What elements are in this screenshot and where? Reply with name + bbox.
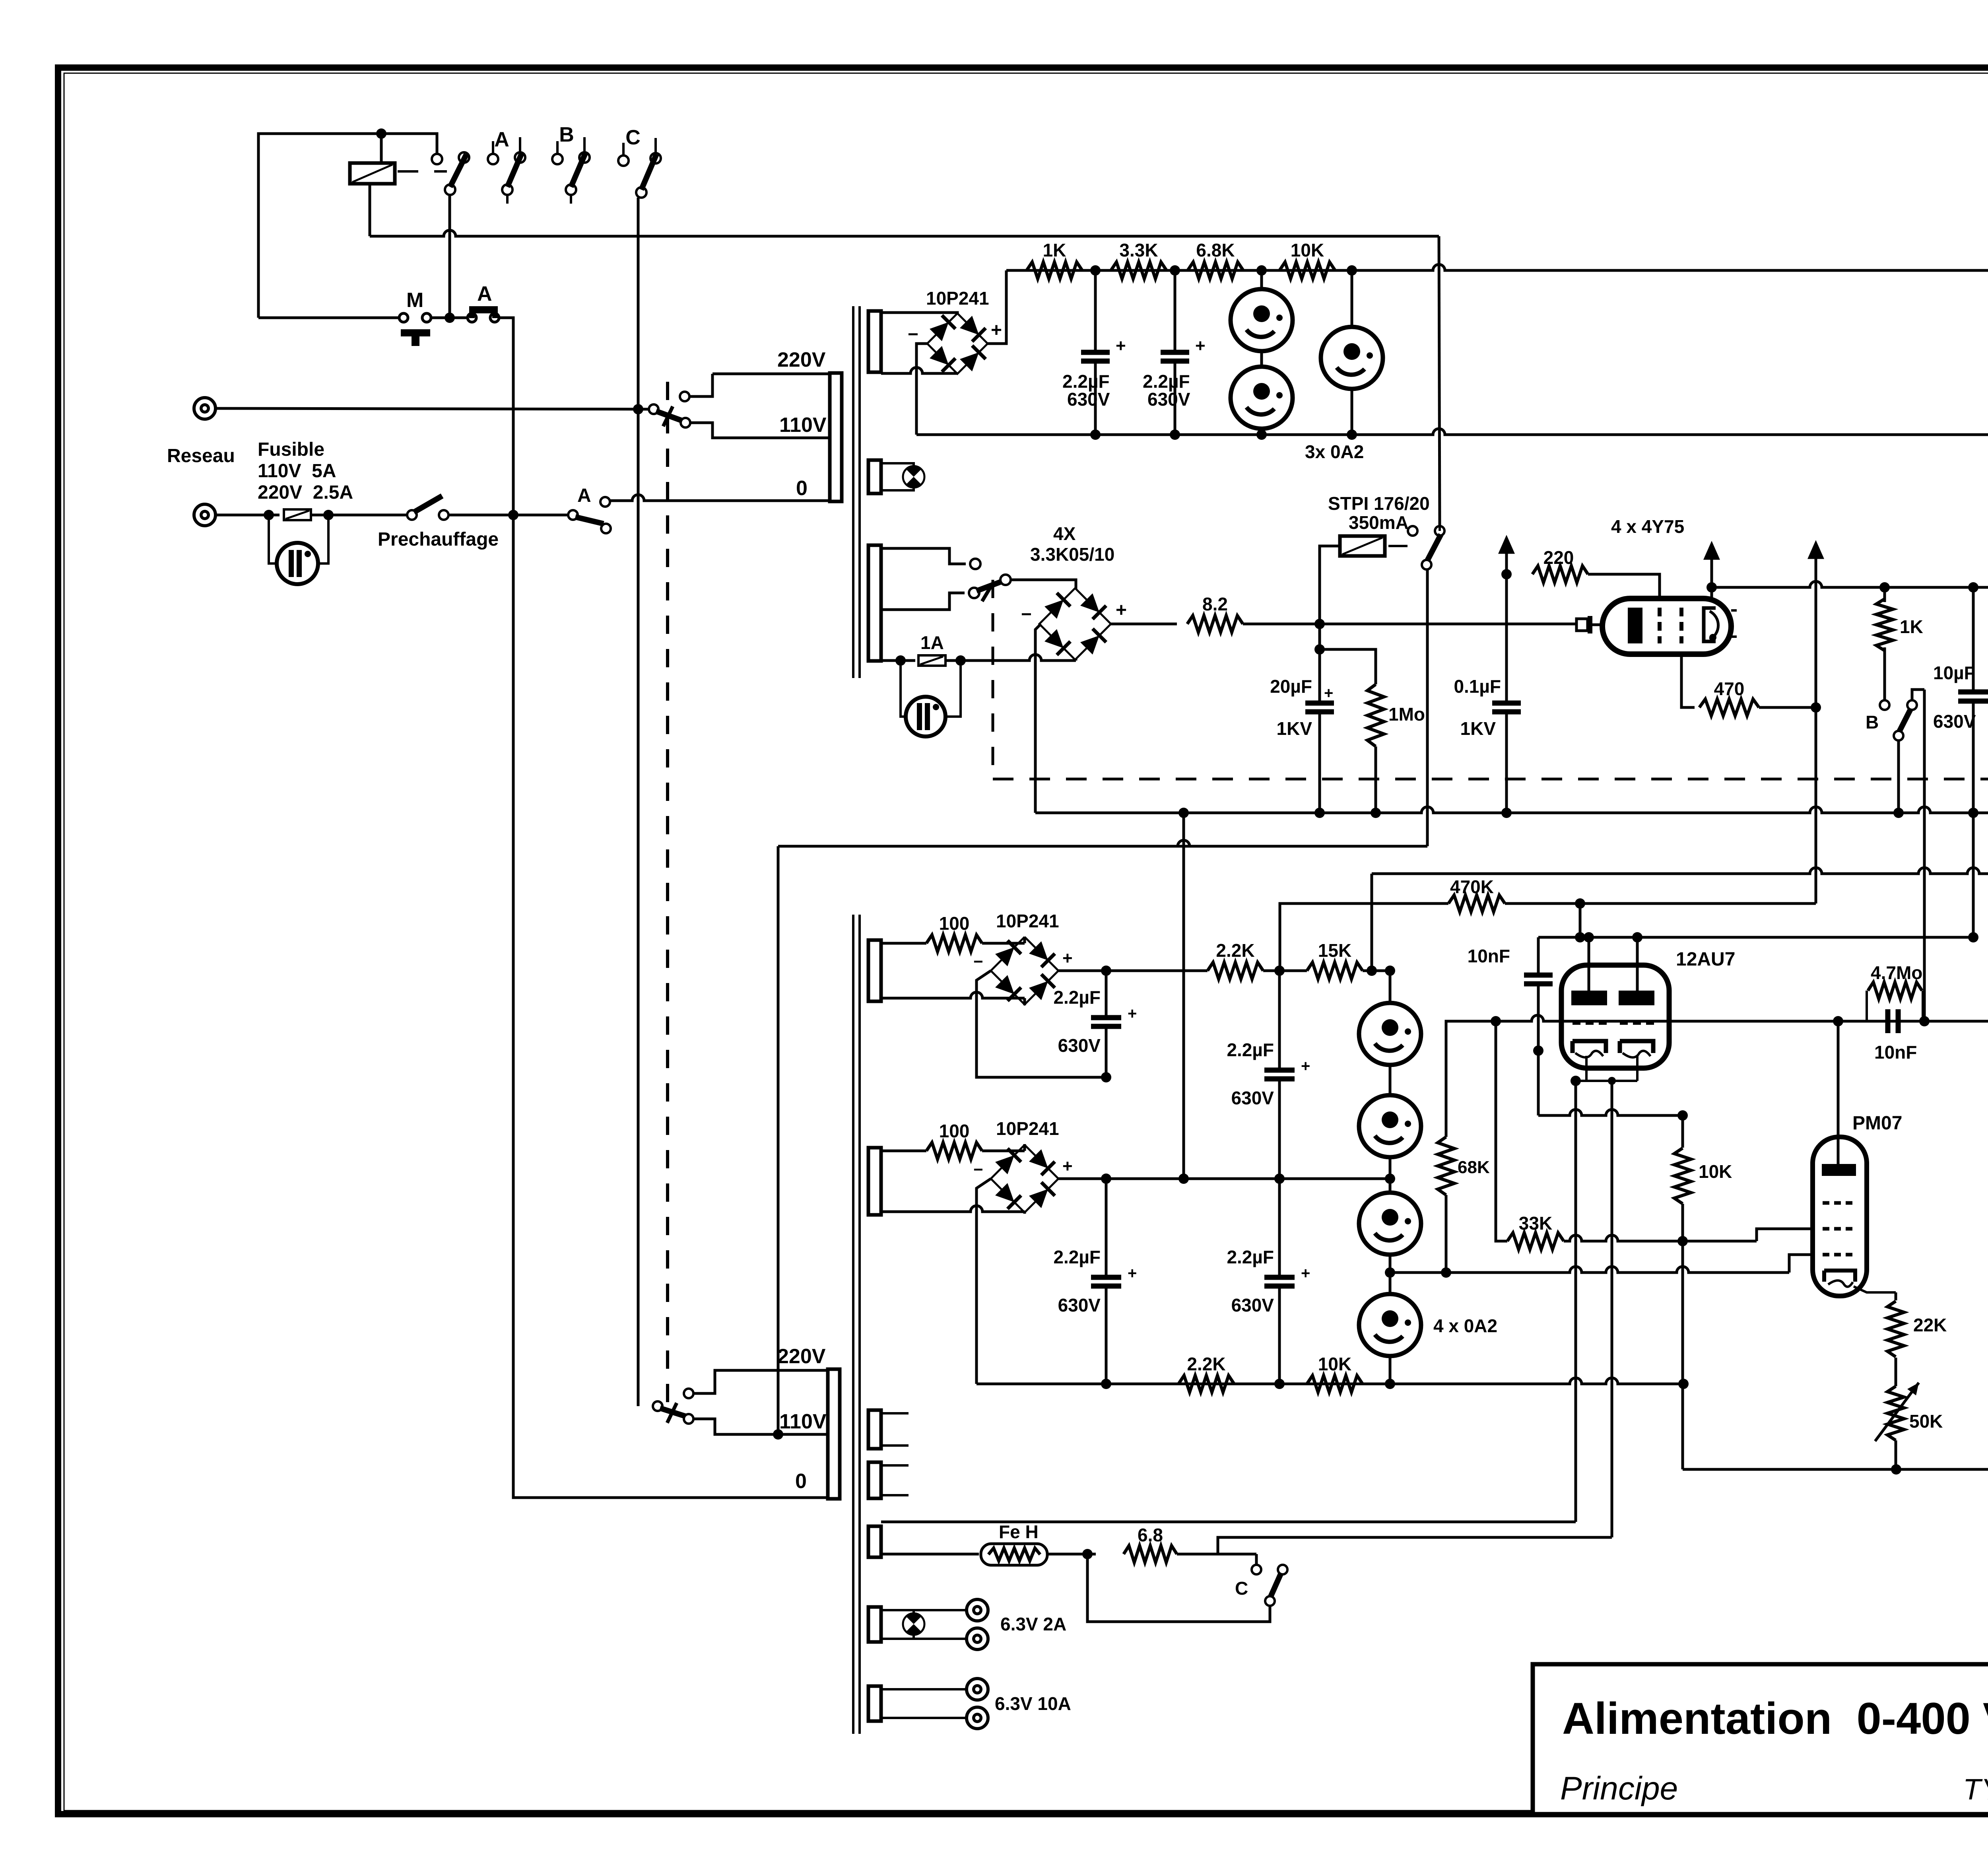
wire coil bottom to STPI feed line bbox=[369, 184, 371, 236]
svg-text:6.3V 2A: 6.3V 2A bbox=[1000, 1614, 1066, 1634]
svg-text:+: + bbox=[1116, 600, 1127, 621]
wire 6.3V2A bottom bbox=[881, 1638, 967, 1640]
dashed mechanical link relay to contact bbox=[398, 170, 447, 173]
wire 6.3V10A top bbox=[881, 1688, 967, 1690]
svg-text:0: 0 bbox=[795, 1470, 807, 1493]
node between 2.2K 15K bbox=[1274, 966, 1285, 976]
pilot lamp bbox=[903, 466, 924, 488]
wire winding W1 bottom to bridge3 bbox=[881, 992, 1025, 998]
wire 150V - rail bbox=[916, 429, 1988, 435]
regulator tube 0A2 #3 bbox=[1351, 270, 1353, 435]
wire 220V tap to primary bbox=[712, 373, 830, 375]
bridge rectifier 4X 3.3K05/10 bbox=[1039, 588, 1111, 660]
wire 10uF line to anode supply lower bbox=[1972, 813, 1975, 937]
capacitor 2.2uF #1 lower bbox=[1105, 971, 1108, 1018]
bridge rectifier 10P241 #1 bbox=[927, 313, 988, 374]
svg-text:6.8: 6.8 bbox=[1138, 1525, 1163, 1545]
wire 68K top riser bbox=[1446, 1021, 1496, 1137]
svg-text:+: + bbox=[1301, 1265, 1310, 1282]
svg-text:630V: 630V bbox=[1231, 1088, 1274, 1108]
switch HV tap select bbox=[977, 581, 1002, 591]
resistor 100 #1 bbox=[881, 942, 926, 945]
node after 6.8K bbox=[1256, 265, 1267, 276]
dashed link STPI bbox=[1388, 545, 1408, 547]
svg-text:220V: 220V bbox=[777, 1345, 826, 1368]
svg-text:22K: 22K bbox=[1913, 1315, 1947, 1335]
wire winding W2 bottom to bridge4 bbox=[881, 1206, 1025, 1212]
tube 12AU7 grids dashed bbox=[1573, 1021, 1607, 1025]
wire 15K to 0A2 string bbox=[1363, 970, 1390, 972]
svg-text:630V: 630V bbox=[1058, 1295, 1101, 1315]
regulator tube 0A2 #2 bbox=[1231, 367, 1293, 429]
svg-text:TYPE :: TYPE : bbox=[1963, 1773, 1988, 1806]
svg-text:2.2µF: 2.2µF bbox=[1053, 987, 1101, 1008]
arrow anode feed 1 bbox=[1498, 535, 1515, 554]
wire B common to minus rail bbox=[1897, 740, 1900, 813]
svg-text:10P241: 10P241 bbox=[996, 1118, 1059, 1139]
wire line3 0A2 to PM07 grid3 bbox=[1385, 1267, 1395, 1278]
svg-text:100: 100 bbox=[939, 913, 970, 934]
wire T2 110V tap feed down bbox=[777, 846, 780, 1434]
resistor 6.8 bbox=[1124, 1546, 1177, 1562]
capacitor 2.2uF #4 low mid bbox=[1278, 1179, 1281, 1277]
tube 4Y75 grid 1 dashed bbox=[1658, 608, 1662, 643]
transformer T2 winding Fe H bbox=[868, 1526, 881, 1557]
node 10uF top bbox=[1968, 582, 1978, 593]
node cap1 top bbox=[1101, 966, 1111, 976]
svg-text:50K: 50K bbox=[1909, 1411, 1943, 1432]
wire 1A to bridge2 AC bottom bbox=[945, 659, 961, 662]
wire bridge4 - loop down bbox=[977, 1179, 991, 1384]
wire 6.3V2A top bbox=[881, 1609, 967, 1611]
tube PM07#1 grids bbox=[1823, 1201, 1857, 1205]
push button M bbox=[399, 313, 408, 322]
tube 4Y75 bottom pin to 470 bbox=[1681, 654, 1695, 707]
wire 0-400V + rail bbox=[1712, 581, 1988, 587]
regulator string 4x 0A2 bbox=[1389, 971, 1392, 1384]
wire STPI coil feed bbox=[1320, 546, 1340, 624]
capacitor 2.2uF 630V #B bbox=[1170, 429, 1180, 440]
svg-text:2.2µF: 2.2µF bbox=[1053, 1247, 1101, 1267]
svg-text:1K: 1K bbox=[1043, 240, 1066, 260]
svg-text:+: + bbox=[1062, 948, 1073, 968]
node 1Mo tap bbox=[1314, 644, 1325, 655]
node 0A2 string top bbox=[1385, 966, 1395, 976]
svg-text:10K: 10K bbox=[1699, 1161, 1732, 1182]
wire 1Mo bottom bbox=[1375, 746, 1377, 813]
svg-text:3.3K: 3.3K bbox=[1119, 240, 1158, 260]
capacitor 0.1uF 1KV bbox=[1505, 574, 1508, 703]
wire PM07#1 cathode to 22K bbox=[1854, 1286, 1896, 1292]
svg-text:630V: 630V bbox=[1067, 389, 1110, 410]
resistor 8.2 bbox=[1187, 616, 1243, 632]
wire bridge4 + output row bbox=[1058, 1177, 1390, 1180]
wire bridge3 + output row bbox=[1058, 970, 1208, 972]
svg-text:Fe H: Fe H bbox=[999, 1521, 1039, 1542]
tube 12AU7 envelope bbox=[1561, 965, 1669, 1068]
wire 220 to tube grid bbox=[1588, 574, 1660, 604]
node 8.2 output bbox=[1314, 619, 1325, 629]
node feedback 470 bbox=[1811, 702, 1821, 713]
svg-text:630V: 630V bbox=[1058, 1035, 1101, 1056]
tube PM07#1 anode pin bbox=[1837, 1021, 1840, 1164]
transformer T2 winding 6.3V 2A bbox=[868, 1607, 881, 1642]
resistor 10K mid bbox=[1681, 1115, 1684, 1148]
pot 50K bbox=[1887, 1386, 1904, 1440]
node 220 resistor left bbox=[1501, 569, 1512, 579]
resistor 470K bbox=[1448, 895, 1505, 912]
svg-text:+: + bbox=[1195, 336, 1206, 356]
svg-text:+: + bbox=[1062, 1156, 1073, 1176]
node 1A right bbox=[955, 655, 966, 666]
svg-text:B: B bbox=[1866, 712, 1879, 732]
resistor 4.7Mo loop bbox=[1866, 991, 1868, 1021]
svg-text:M: M bbox=[406, 289, 423, 312]
node mains junction bbox=[508, 510, 518, 520]
transformer T2 stub winding 2 bbox=[868, 1462, 881, 1498]
wire Fe H bottom line bbox=[881, 1553, 979, 1556]
resistor 2.2K upper bbox=[1208, 962, 1263, 979]
node after 1K bbox=[1090, 265, 1101, 276]
svg-text:1KV: 1KV bbox=[1277, 718, 1312, 739]
wire 0-400V minus rail bbox=[1035, 807, 1988, 813]
fuse F1 bbox=[284, 509, 311, 520]
ballast Fe H bbox=[981, 1544, 1047, 1565]
wire 220V tap select bbox=[689, 374, 712, 396]
transformer T1 secondary 150V bbox=[868, 311, 881, 372]
svg-text:−: − bbox=[973, 1160, 983, 1179]
svg-text:−: − bbox=[1021, 604, 1032, 624]
svg-text:+: + bbox=[1324, 684, 1333, 702]
svg-text:470K: 470K bbox=[1450, 876, 1494, 897]
transformer T2 stub winding 1 bbox=[868, 1410, 881, 1449]
tube PM07#1 anode bbox=[1822, 1164, 1856, 1176]
svg-text:−: − bbox=[908, 324, 918, 344]
tube 4Y75 anode pin bbox=[1710, 587, 1713, 598]
svg-text:+: + bbox=[1128, 1005, 1137, 1022]
node T2 110V feed bbox=[773, 1429, 783, 1440]
svg-text:8.2: 8.2 bbox=[1202, 594, 1228, 614]
svg-text:4 x 0A2: 4 x 0A2 bbox=[1433, 1315, 1497, 1336]
transformer T2 secondary W2 bbox=[868, 1148, 881, 1215]
wire heater riser 1 bbox=[1574, 1081, 1577, 1522]
resistor 15K upper bbox=[1307, 962, 1363, 979]
svg-text:1Mo: 1Mo bbox=[1388, 704, 1425, 725]
resistor 33K bbox=[1507, 1233, 1564, 1249]
wire long line to STPI switch bbox=[370, 230, 1439, 236]
arrow feedback vertical bbox=[1807, 540, 1824, 559]
transformer T1 primary winding bbox=[830, 373, 842, 501]
dashed mechanical rail bbox=[993, 778, 1988, 781]
svg-text:0: 0 bbox=[796, 477, 808, 500]
node riser sense bbox=[1367, 966, 1377, 976]
wire selected tap to bridge2 bbox=[1011, 580, 1076, 589]
svg-text:630V: 630V bbox=[1231, 1295, 1274, 1315]
wire 470K feedback line bbox=[1280, 903, 1448, 969]
wire hot vertical to T2 selector bbox=[637, 414, 640, 1406]
svg-text:1KV: 1KV bbox=[1460, 718, 1496, 739]
tube PM07#1 cathode bbox=[1824, 1271, 1855, 1282]
resistor 470 bbox=[1699, 699, 1759, 716]
wire y2128 line hop bbox=[778, 840, 1427, 846]
node after 3.3K bbox=[1170, 265, 1180, 276]
wire pilot winding to lamp bbox=[881, 463, 914, 467]
svg-text:220V: 220V bbox=[777, 348, 826, 371]
resistor 10K (150V chain) bbox=[1279, 262, 1335, 279]
tube 12AU7 anode pins bbox=[1588, 937, 1590, 991]
svg-text:2.2µF: 2.2µF bbox=[1227, 1247, 1274, 1267]
svg-text:6.8K: 6.8K bbox=[1196, 240, 1235, 260]
wire mains feed to STPI contact bbox=[1439, 236, 1440, 526]
wire heater link up bbox=[1255, 1554, 1258, 1565]
svg-text:Prechauffage: Prechauffage bbox=[378, 529, 499, 550]
resistor 2.2K lower bbox=[1178, 1376, 1234, 1392]
svg-text:Principe: Principe bbox=[1560, 1770, 1678, 1807]
wire secondary to bridge AC bottom bbox=[881, 367, 957, 373]
svg-text:+: + bbox=[1116, 336, 1126, 356]
svg-text:−: − bbox=[973, 952, 983, 971]
wire T2 220V tap bbox=[693, 1370, 828, 1393]
transformer T2 secondary W1 bbox=[868, 940, 881, 1001]
switch B contacts bbox=[1880, 700, 1889, 710]
node anode pins bbox=[1584, 932, 1594, 942]
terminal 6.3V10A b bbox=[967, 1707, 988, 1729]
wire bridge1 - down to 150V - rail bbox=[916, 344, 927, 435]
switch Prechauffage bbox=[407, 510, 417, 520]
wire 6.8 to heater riser link bbox=[1177, 1553, 1256, 1556]
node fuse right bbox=[323, 510, 334, 520]
svg-text:100: 100 bbox=[939, 1121, 970, 1141]
wire C pivot down to mains node bbox=[637, 198, 640, 410]
wire B right contact to lower feedback bbox=[1912, 690, 1924, 700]
wire upper mains line bbox=[215, 408, 649, 409]
svg-text:C: C bbox=[625, 126, 641, 149]
node after 10K bbox=[1347, 265, 1357, 276]
resistor 100 #2 bbox=[881, 1150, 926, 1152]
svg-text:12AU7: 12AU7 bbox=[1676, 949, 1735, 970]
resistor 22K bbox=[1895, 1292, 1897, 1300]
wire STPI common down to T2 110V tap bbox=[1426, 569, 1429, 846]
capacitor 2.2uF #3 low left bbox=[1105, 1179, 1108, 1277]
transformer T2 core bbox=[852, 915, 854, 1734]
wire coil top pin bbox=[380, 134, 383, 163]
tube 4x4Y75 envelope bbox=[1602, 598, 1731, 654]
dashed gang link 4X selector bbox=[992, 580, 994, 779]
svg-text:110V 5A: 110V 5A bbox=[258, 460, 336, 482]
capacitor 2.2uF 630V #A bbox=[1090, 429, 1101, 440]
terminal 6.3V10A a bbox=[967, 1679, 988, 1700]
resistor 220 bbox=[1532, 566, 1588, 583]
fuse 1A bbox=[918, 655, 945, 666]
wire to 1Mo bbox=[1320, 649, 1376, 684]
resistor 6.8K bbox=[1188, 262, 1243, 279]
resistor 3.3K bbox=[1111, 262, 1167, 279]
switch A (gang) contacts bbox=[492, 141, 494, 154]
svg-text:Fusible: Fusible bbox=[258, 439, 324, 460]
svg-text:Alimentation 0-400 V 500 mA: Alimentation 0-400 V 500 mA bbox=[1562, 1694, 1988, 1743]
capacitor 20uF 1KV bbox=[1318, 624, 1321, 703]
tube PM07 #1 envelope bbox=[1813, 1137, 1867, 1296]
svg-text:10P241: 10P241 bbox=[996, 911, 1059, 931]
wire relay-supply loop top bbox=[258, 134, 437, 318]
svg-text:10nF: 10nF bbox=[1874, 1042, 1917, 1063]
switch A mains bbox=[568, 510, 578, 520]
svg-text:220V 2.5A: 220V 2.5A bbox=[258, 482, 353, 503]
node button line bbox=[445, 313, 455, 323]
svg-text:+: + bbox=[1301, 1057, 1310, 1075]
node 1K top bbox=[1879, 582, 1890, 593]
switch C (gang) contacts bbox=[622, 143, 625, 155]
svg-text:3x 0A2: 3x 0A2 bbox=[1305, 441, 1364, 462]
wire 6.3V10A bottom bbox=[881, 1717, 967, 1719]
switch B (gang) contacts bbox=[556, 141, 559, 154]
wire bridge2 - to 0-400V minus rail bbox=[1035, 624, 1041, 813]
arrow anode feed 2 bbox=[1703, 541, 1720, 560]
tube 4Y75 cathode connector bbox=[1575, 624, 1578, 626]
svg-text:2.2µF: 2.2µF bbox=[1227, 1039, 1274, 1060]
svg-text:3.3K05/10: 3.3K05/10 bbox=[1030, 544, 1114, 565]
wire T2 110V tap bbox=[693, 1419, 828, 1434]
wire heater riser 2 bbox=[1611, 1081, 1613, 1537]
terminal 6.3V2A b bbox=[967, 1628, 988, 1650]
svg-text:4X: 4X bbox=[1053, 523, 1076, 544]
svg-text:10P241: 10P241 bbox=[926, 288, 989, 309]
node 470K output bbox=[1575, 898, 1585, 909]
wire relay contact to button line bbox=[448, 195, 451, 318]
svg-text:10K: 10K bbox=[1318, 1354, 1351, 1374]
wire sense line 2197 bbox=[1371, 874, 1373, 969]
svg-text:1A: 1A bbox=[920, 632, 944, 653]
terminal 6.3V2A a bbox=[967, 1599, 988, 1621]
wire A button to mains junction bbox=[499, 318, 513, 515]
wire x2977 from minus rail to row2 bbox=[1182, 813, 1185, 1179]
lamp 6.3V bbox=[912, 1610, 915, 1613]
svg-text:110V: 110V bbox=[779, 414, 827, 437]
dashed gang link vertical bbox=[666, 382, 669, 1416]
relay contact switch bbox=[432, 154, 442, 164]
wire cathode bias line bbox=[1538, 1109, 1683, 1115]
wire 33K to PM07#1 grid2 bbox=[1564, 1235, 1757, 1241]
switch STPI contact bbox=[1408, 526, 1417, 536]
wire T2 0 tap bbox=[513, 515, 828, 1498]
wire bottom row supply bbox=[977, 1378, 1683, 1384]
terminal Reseau upper bbox=[194, 398, 215, 419]
svg-text:2.2K: 2.2K bbox=[1216, 940, 1254, 961]
wire bridge2 + through 8.2 bbox=[1111, 623, 1177, 626]
transformer T1 core bbox=[852, 306, 854, 678]
node minus rail junctions bbox=[1314, 808, 1325, 818]
svg-text:10K: 10K bbox=[1291, 240, 1324, 260]
wire grid line main bbox=[1496, 1015, 1988, 1021]
wire 150V + rail bbox=[1006, 264, 1988, 270]
svg-text:PM07: PM07 bbox=[1852, 1113, 1902, 1134]
resistor 1K (150V chain) bbox=[1027, 262, 1082, 279]
svg-text:470: 470 bbox=[1714, 678, 1745, 699]
svg-text:2.2K: 2.2K bbox=[1187, 1354, 1225, 1374]
node hot line bbox=[633, 404, 643, 414]
title block frame bbox=[1533, 1664, 1988, 1814]
tube 4Y75 anode bracket bbox=[1704, 608, 1716, 641]
svg-text:630V: 630V bbox=[1933, 711, 1976, 732]
svg-text:C: C bbox=[1235, 1578, 1248, 1599]
node bottom row bbox=[1101, 1379, 1111, 1389]
transformer T2 selector bbox=[653, 1401, 662, 1411]
wire HV tap top bbox=[881, 548, 966, 564]
wire lower mains line to fuse bbox=[215, 514, 280, 517]
svg-text:+: + bbox=[991, 320, 1002, 341]
tube 4Y75 grid 2 dashed bbox=[1679, 608, 1683, 643]
wire 470K node down to anode line bbox=[1579, 903, 1582, 937]
wire bridge1 + up to 150V rail bbox=[988, 270, 1006, 344]
svg-text:20µF: 20µF bbox=[1270, 676, 1312, 697]
transformer T1 pilot winding bbox=[868, 460, 881, 494]
switch C heater bbox=[1252, 1565, 1261, 1574]
node fuse left bbox=[264, 510, 274, 520]
svg-text:10µF: 10µF bbox=[1933, 663, 1975, 683]
wire 22K to 50K bbox=[1895, 1358, 1897, 1386]
svg-text:110V: 110V bbox=[779, 1410, 827, 1433]
transformer T2 primary winding bbox=[828, 1369, 840, 1499]
regulator tube 0A2 #1 bbox=[1260, 270, 1263, 435]
selector switch T1 voltage bbox=[649, 404, 658, 414]
wire 110V tap select bbox=[690, 423, 830, 438]
wire 8.2 to tube connector bbox=[1243, 623, 1575, 626]
tube 12AU7 cathodes bbox=[1573, 1041, 1606, 1053]
svg-text:15K: 15K bbox=[1318, 940, 1351, 961]
svg-text:A: A bbox=[494, 128, 509, 151]
wire HV winding bottom to 1A fuse bbox=[881, 659, 915, 662]
wire 12AU7 cathode pins bbox=[1585, 1056, 1588, 1081]
wire HV tap lower bbox=[881, 593, 965, 610]
node anode rail bbox=[1706, 582, 1717, 593]
wire prechauffage to node bbox=[448, 514, 569, 517]
svg-text:4.7Mo: 4.7Mo bbox=[1871, 962, 1922, 983]
svg-text:0.1µF: 0.1µF bbox=[1454, 676, 1501, 697]
svg-text:Reseau: Reseau bbox=[167, 445, 235, 466]
wire Fe H to 6.8 bbox=[1047, 1553, 1096, 1556]
resistor 1K sense bbox=[1883, 587, 1886, 602]
svg-text:220: 220 bbox=[1543, 547, 1574, 568]
relay coil STPI bbox=[1340, 536, 1385, 556]
wire fuse to prechauffage switch bbox=[311, 514, 408, 517]
svg-text:4 x 4Y75: 4 x 4Y75 bbox=[1611, 516, 1684, 537]
relay coil K1 bbox=[350, 163, 395, 184]
wire bridge3 - loop to cap1 bottom bbox=[977, 971, 1101, 1077]
tube 12AU7 anodes bbox=[1571, 991, 1607, 1005]
svg-text:A: A bbox=[477, 282, 492, 305]
wire bottom line bbox=[1683, 1468, 1988, 1471]
svg-text:10nF: 10nF bbox=[1468, 946, 1510, 966]
transformer T2 winding 6.3V 10A bbox=[868, 1686, 881, 1721]
node 1A left bbox=[895, 655, 906, 666]
meter counter under fuse bbox=[269, 515, 277, 563]
wire 470 to feedback node bbox=[1759, 706, 1816, 709]
node relay coil feed bbox=[376, 128, 386, 139]
bridge rectifier 10P241 #3 bbox=[991, 937, 1058, 1005]
svg-text:B: B bbox=[559, 123, 574, 146]
resistor 10K lower bbox=[1307, 1376, 1363, 1392]
series cap 10nF and 4.7Mo bbox=[1833, 1016, 1843, 1026]
svg-text:1K: 1K bbox=[1900, 616, 1923, 637]
capacitor 10nF shunt bbox=[1537, 937, 1540, 975]
push button A bbox=[450, 317, 468, 319]
bridge rectifier 10P241 #4 bbox=[991, 1145, 1058, 1212]
wire C bypass loop bbox=[1087, 1554, 1270, 1622]
svg-text:6.3V 10A: 6.3V 10A bbox=[995, 1693, 1071, 1714]
wire secondary to bridge AC top bbox=[881, 313, 957, 315]
wire 0-tap line T1 with hop bbox=[600, 497, 610, 507]
svg-text:350mA: 350mA bbox=[1349, 512, 1409, 533]
